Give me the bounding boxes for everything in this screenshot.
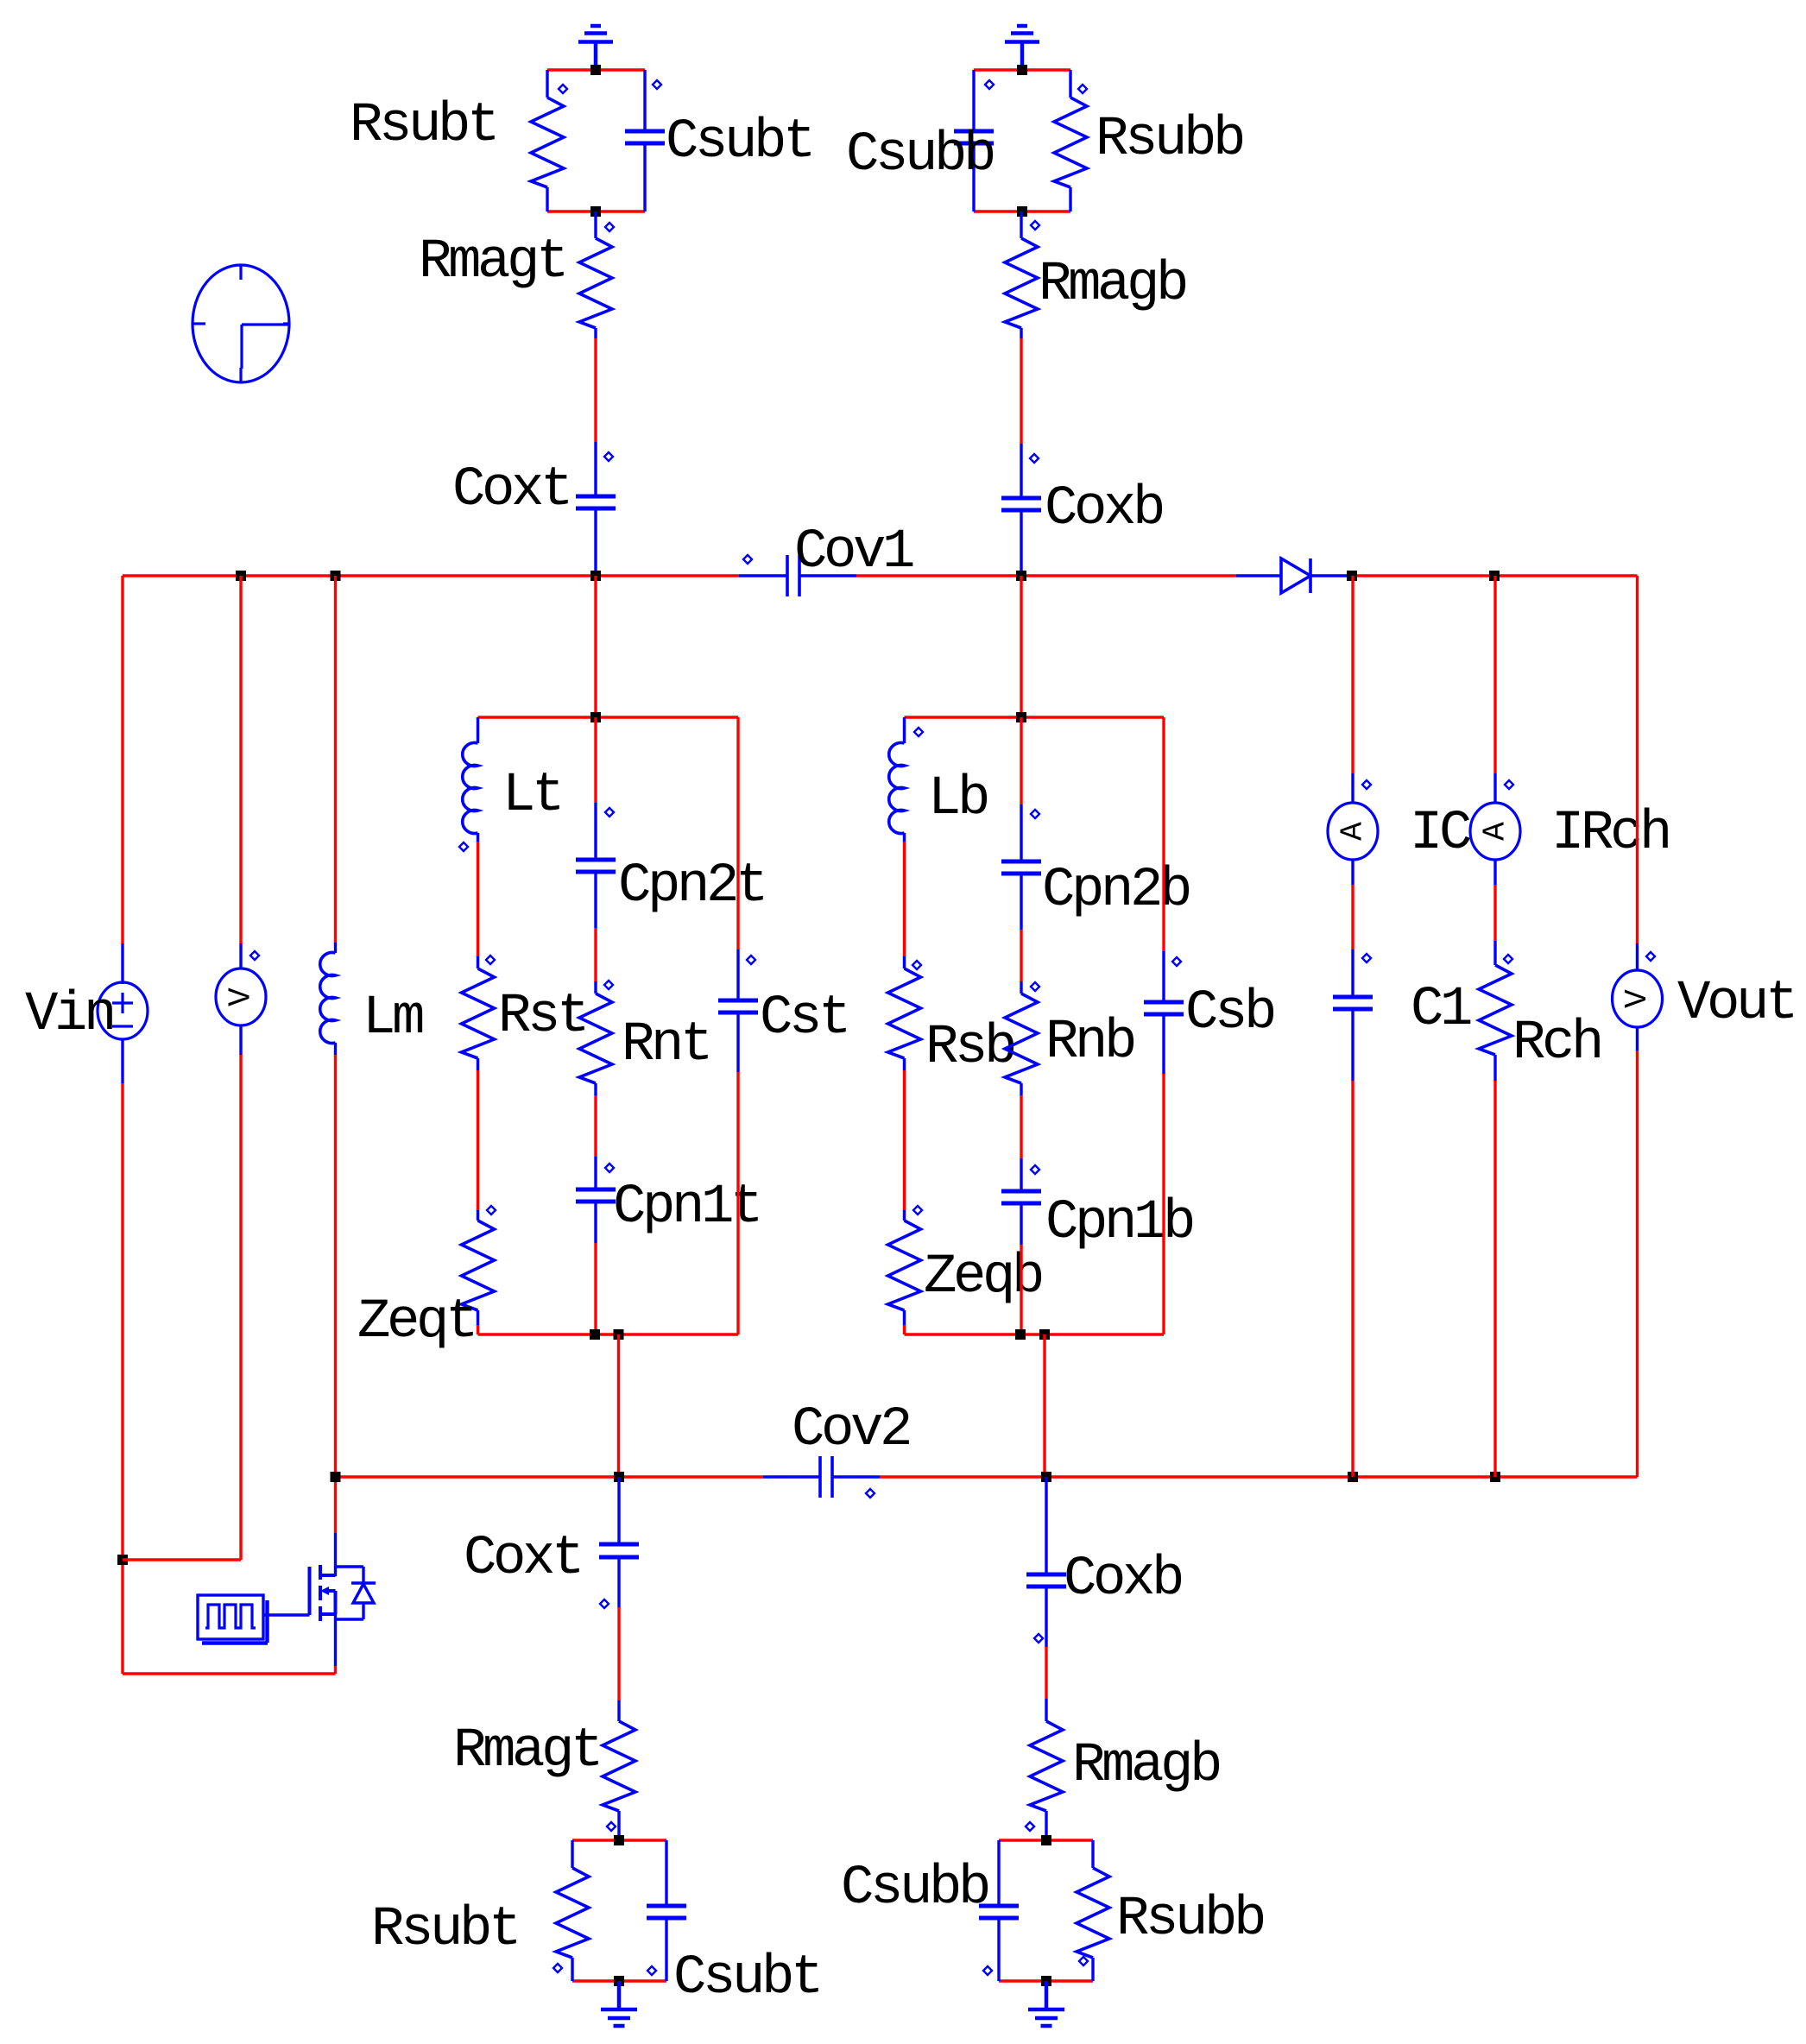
wire: [665, 1840, 667, 1906]
inductor Lt: [463, 742, 478, 833]
svg-text:C1: C1: [1411, 979, 1471, 1041]
svg-text:Rsubt: Rsubt: [350, 95, 496, 157]
wire: [1493, 885, 1496, 941]
wire: [1020, 1245, 1022, 1334]
wire: [1045, 1647, 1047, 1699]
capacitor C1: [1333, 997, 1373, 1009]
pin marker: [1031, 810, 1039, 818]
wire: [1636, 576, 1639, 943]
wire: [1020, 981, 1022, 994]
capacitor Coxt (top): [576, 496, 616, 508]
wire: [121, 943, 123, 984]
node bus-bottom x=1732: [1490, 1472, 1500, 1482]
wire: [1020, 444, 1022, 498]
node box3 bottom center: [1015, 1329, 1026, 1340]
wire diode cathode lead: [1310, 574, 1352, 577]
capacitor Coxb (top): [1001, 498, 1041, 510]
wire: [903, 1325, 906, 1334]
body diode of Q1: [336, 1567, 376, 1619]
pin marker: [1031, 1165, 1039, 1174]
wire: [643, 70, 646, 131]
svg-text:Cpn2b: Cpn2b: [1042, 860, 1190, 922]
wire: [1351, 885, 1354, 949]
pin marker: [250, 951, 259, 960]
wire: [1493, 1081, 1496, 1477]
pin marker: [653, 80, 661, 89]
node box3 bottom drop: [1039, 1329, 1050, 1340]
wire: [477, 1058, 479, 1070]
wire Cov2 left lead: [763, 1475, 820, 1478]
wire box4 top edge: [572, 1839, 666, 1841]
wire: [1020, 1158, 1022, 1191]
wire: [594, 508, 597, 576]
ground bottom-right: [1028, 1981, 1064, 2026]
resistor Rch: [1479, 965, 1512, 1055]
wire: [617, 1811, 620, 1840]
wire: [594, 717, 597, 803]
wire: [903, 1210, 906, 1221]
node bus-top x=388.5: [331, 571, 341, 581]
wire: [571, 1840, 573, 1868]
wire: [617, 1557, 620, 1607]
svg-text:Zeqt: Zeqt: [357, 1291, 475, 1353]
pin marker: [985, 80, 994, 89]
svg-text:Rsubb: Rsubb: [1116, 1889, 1264, 1951]
wire diode anode lead: [1236, 574, 1281, 577]
wire: [736, 949, 739, 1000]
wire: [594, 1095, 597, 1157]
svg-text:Rsubt: Rsubt: [371, 1899, 518, 1961]
wire: [1045, 1477, 1047, 1574]
wire: [571, 1958, 573, 1981]
wire: [1351, 576, 1354, 773]
pin marker: [866, 1489, 875, 1498]
wire lower bus right: [880, 1475, 1638, 1478]
capacitor Csubb (top): [954, 131, 994, 143]
svg-text:Rmagt: Rmagt: [453, 1720, 600, 1782]
svg-text:Coxb: Coxb: [1064, 1549, 1182, 1611]
wire: [477, 717, 479, 743]
inductor Lm: [320, 953, 336, 1044]
svg-text:Zeqb: Zeqb: [924, 1246, 1042, 1309]
node box5 bottom: [1041, 1976, 1051, 1986]
wire: [121, 1039, 123, 1083]
wire: [1045, 1699, 1047, 1721]
wire: [121, 576, 123, 943]
capacitor Cov2: [820, 1456, 832, 1498]
wire: [1162, 1014, 1165, 1074]
pin marker: [1030, 454, 1039, 463]
wire: [972, 143, 975, 211]
wire box2 drop: [617, 1334, 620, 1477]
wire: [736, 1072, 739, 1334]
wire: [334, 576, 337, 943]
wire: [1162, 717, 1165, 951]
wire: [1636, 1050, 1639, 1477]
resistor Rsubt (top): [531, 98, 564, 187]
wire: [1069, 187, 1071, 211]
wire: [997, 1840, 1000, 1906]
wire Cov1 left lead: [739, 574, 787, 577]
capacitor Cpn2t: [576, 860, 616, 872]
wire: [903, 956, 906, 968]
wire: [1091, 1840, 1094, 1868]
wire: [974, 210, 1070, 212]
ground top-right: [1005, 26, 1039, 70]
svg-text:Cpn1b: Cpn1b: [1045, 1192, 1193, 1254]
svg-text:IRch: IRch: [1551, 803, 1669, 865]
wire: [903, 1070, 906, 1210]
svg-text:A: A: [1478, 822, 1513, 841]
resistor Zeqt: [462, 1221, 495, 1310]
pin marker: [1026, 1822, 1034, 1831]
wire: [594, 1083, 597, 1095]
wire: [903, 833, 906, 842]
pin marker: [486, 956, 495, 964]
wire: [594, 1243, 597, 1334]
node ground-Rsubt/Csubt top: [590, 65, 601, 75]
svg-text:Rmagb: Rmagb: [1072, 1735, 1220, 1797]
capacitor Coxt (bottom): [599, 1544, 639, 1557]
wire: [1493, 941, 1496, 965]
capacitor Csb: [1144, 1002, 1184, 1014]
node bus-bottom x=717: [614, 1472, 624, 1482]
wire box4 bottom edge: [572, 1979, 666, 1982]
wire MOSFET source lead: [334, 1614, 337, 1666]
svg-text:Rsubb: Rsubb: [1096, 109, 1243, 171]
wire: [903, 1058, 906, 1070]
wire: [1020, 1095, 1022, 1158]
wire: [903, 1310, 906, 1325]
pin marker: [604, 452, 613, 461]
wire bus to box3: [1020, 576, 1022, 717]
node Csubb/Rsubb bottom: [1017, 206, 1027, 217]
capacitor Csubb (bottom): [979, 1906, 1019, 1918]
svg-text:Cst: Cst: [760, 987, 848, 1050]
probe dial symbol: [193, 265, 289, 382]
wire: [617, 1700, 620, 1721]
pin marker: [912, 961, 921, 969]
wire: [239, 576, 242, 943]
wire: [1351, 1009, 1354, 1081]
wire: [594, 1157, 597, 1189]
capacitor Cpn2b: [1001, 861, 1041, 874]
wire: [1351, 949, 1354, 997]
wire: [903, 842, 906, 956]
svg-text:Rst: Rst: [498, 986, 586, 1048]
resistor Rmagt (top): [579, 238, 612, 328]
wire: [477, 1210, 479, 1221]
pin marker: [1078, 85, 1087, 93]
svg-text:Cov1: Cov1: [794, 521, 913, 584]
wire voltmeter return: [123, 1558, 241, 1561]
wire: [1351, 860, 1354, 885]
node box2 bottom drop: [614, 1329, 624, 1340]
node box4 top: [614, 1835, 624, 1845]
wire MOSFET drain lead: [334, 1533, 337, 1576]
node bus-bottom x=1567: [1348, 1472, 1358, 1482]
wire: [665, 1918, 667, 1981]
pulse source V2: [198, 1595, 268, 1643]
node box2 bottom center: [590, 1329, 600, 1340]
resistor Zeqb: [888, 1221, 921, 1310]
svg-text:Lt: Lt: [502, 765, 561, 827]
pin marker: [604, 981, 613, 989]
wire: [1351, 773, 1354, 804]
ground top-left: [578, 26, 613, 70]
svg-text:Lm: Lm: [363, 987, 423, 1050]
wire: [1636, 943, 1639, 971]
pin marker: [1505, 780, 1513, 789]
node box5 top: [1041, 1835, 1051, 1845]
pin marker: [983, 1966, 992, 1975]
svg-text:Csb: Csb: [1185, 982, 1274, 1044]
wire: [1493, 773, 1496, 804]
svg-text:Coxb: Coxb: [1045, 478, 1163, 540]
wire: [239, 1025, 242, 1055]
wire: [1020, 930, 1022, 981]
wire: [594, 928, 597, 981]
pin marker: [1031, 221, 1039, 230]
capacitor Cpn1t: [576, 1189, 616, 1202]
wire: [477, 833, 479, 842]
wire: [546, 70, 548, 98]
wire: [617, 1607, 620, 1700]
capacitor Csubt (bottom): [647, 1906, 686, 1918]
node bus-top x=1183: [1016, 571, 1026, 581]
wire box3 drop: [1043, 1334, 1045, 1477]
svg-text:V: V: [224, 987, 259, 1006]
node bus-top x=690: [590, 571, 601, 581]
wire: [1069, 70, 1071, 98]
resistor Rmagb (top): [1005, 238, 1038, 328]
wire: [974, 68, 1070, 71]
svg-text:Csubb: Csubb: [841, 1858, 988, 1920]
resistor Rnb: [1005, 994, 1038, 1083]
wire: [903, 717, 906, 743]
wire: [547, 210, 645, 212]
wire: [1493, 1055, 1496, 1081]
capacitor Coxb (bottom): [1026, 1574, 1066, 1587]
wire: [1020, 874, 1022, 930]
svg-text:Rmagb: Rmagb: [1039, 254, 1186, 316]
svg-text:Rmagt: Rmagt: [419, 231, 565, 293]
wire: [477, 842, 479, 956]
svg-text:A: A: [1336, 822, 1371, 841]
wire box5 bottom edge: [999, 1979, 1093, 1982]
wire: [594, 981, 597, 994]
node ground-Csubb/Rsubb top: [1017, 65, 1027, 75]
pin marker: [605, 1164, 614, 1172]
svg-text:Csubb: Csubb: [846, 124, 994, 186]
voltage source Vin: [98, 982, 148, 1039]
node bus-top x=1566: [1347, 571, 1357, 581]
pin marker: [1646, 952, 1655, 961]
resistor Rsubb (top): [1054, 98, 1087, 187]
resistor Rsubb (bottom): [1077, 1868, 1109, 1958]
wire: [121, 1083, 123, 1674]
svg-text:V: V: [1620, 989, 1655, 1008]
wire: [1020, 510, 1022, 576]
wire: [334, 1477, 337, 1533]
wire: [477, 956, 479, 968]
wire box5 top edge: [999, 1839, 1093, 1841]
wire bus to box2: [594, 576, 597, 717]
wire: [643, 143, 646, 211]
wire: [1493, 860, 1496, 885]
wire upper bus left: [123, 574, 739, 577]
pin marker: [1031, 982, 1039, 991]
node box4 bottom: [614, 1976, 624, 1986]
node bus-bottom x=1212: [1041, 1472, 1051, 1482]
ammeter IC: [1328, 803, 1378, 860]
pin marker: [605, 808, 614, 817]
pin marker: [553, 1964, 562, 1972]
svg-text:Cpn2t: Cpn2t: [618, 855, 765, 918]
wire: [334, 1043, 337, 1055]
svg-text:Cov2: Cov2: [792, 1399, 909, 1461]
pin marker: [914, 728, 923, 736]
svg-text:Csubt: Csubt: [666, 111, 812, 173]
wire: [1636, 1027, 1639, 1050]
wire box2 bottom edge: [478, 1333, 739, 1335]
pin marker: [1172, 957, 1181, 966]
wire: [546, 187, 548, 211]
pin marker: [459, 842, 468, 851]
svg-text:Rnt: Rnt: [622, 1014, 710, 1076]
diode D1: [1281, 558, 1310, 593]
wire: [239, 1055, 242, 1560]
wire: [547, 68, 645, 71]
pin marker: [1362, 780, 1371, 789]
wire: [1020, 1203, 1022, 1245]
svg-text:Csubt: Csubt: [673, 1947, 820, 2009]
svg-text:Coxt: Coxt: [464, 1528, 581, 1590]
resistor Rsubt (bottom): [556, 1868, 589, 1958]
capacitor Cov1: [787, 555, 799, 596]
resistor Rnt: [579, 994, 612, 1083]
wire: [1045, 1811, 1047, 1840]
resistor Rmagb (bottom): [1030, 1721, 1063, 1811]
wire: [1162, 1074, 1165, 1334]
pin marker: [743, 555, 752, 564]
wire: [1020, 211, 1022, 238]
wire: [334, 943, 337, 953]
wire: [594, 211, 597, 238]
pin marker: [1034, 1634, 1043, 1643]
pin marker: [605, 223, 614, 231]
wire: [972, 70, 975, 131]
wire: [594, 338, 597, 442]
wire: [1020, 338, 1022, 444]
node bus-top x=279: [236, 571, 246, 581]
wire upper bus right: [1352, 574, 1638, 577]
pin marker: [487, 1206, 496, 1214]
pin marker: [1079, 1957, 1088, 1965]
wire: [1020, 717, 1022, 804]
svg-text:Coxt: Coxt: [452, 459, 570, 521]
wire: [736, 1013, 739, 1072]
wire: [736, 717, 739, 949]
pin marker: [607, 1822, 616, 1831]
svg-text:IC: IC: [1410, 803, 1470, 865]
wire: [594, 328, 597, 338]
wire: [1045, 1587, 1047, 1647]
svg-text:Vout: Vout: [1677, 973, 1795, 1035]
svg-text:Lb: Lb: [928, 768, 988, 830]
wire: [239, 943, 242, 969]
wire: [334, 1055, 337, 1477]
node bus-top x=1731: [1489, 571, 1500, 581]
wire: [1493, 576, 1496, 773]
wire: [594, 1202, 597, 1243]
svg-text:Rsb: Rsb: [925, 1017, 1014, 1079]
svg-text:Rnb: Rnb: [1045, 1012, 1134, 1074]
pin marker: [600, 1599, 609, 1608]
pin marker: [647, 1966, 656, 1975]
svg-text:Vin: Vin: [25, 984, 113, 1046]
wire: [334, 1666, 337, 1674]
wire: [477, 1310, 479, 1325]
wire box2 top edge: [478, 716, 739, 718]
pin marker: [559, 85, 567, 93]
wire box3 bottom edge: [905, 1333, 1165, 1335]
capacitor Csubt (top): [625, 131, 665, 143]
wire: [477, 1070, 479, 1210]
capacitor Cpn1b: [1001, 1191, 1041, 1203]
pin marker: [747, 956, 755, 964]
wire source return bottom: [123, 1672, 336, 1675]
node Vin/voltmeter join: [117, 1555, 128, 1565]
pin marker: [1504, 955, 1512, 963]
wire: [997, 1918, 1000, 1981]
wire Cov2 right lead: [832, 1475, 880, 1478]
node Rsubt/Csubt bottom: [590, 206, 601, 217]
ammeter IRch: [1470, 803, 1520, 860]
wire: [1091, 1958, 1094, 1981]
wire: [594, 872, 597, 928]
node box3 top: [1016, 712, 1026, 722]
wire: [594, 442, 597, 496]
capacitor Cst: [718, 1000, 758, 1013]
wire: [1020, 804, 1022, 861]
transistor Q1 (NMOS): [310, 1565, 336, 1621]
inductor Lb: [889, 743, 905, 834]
wire: [1020, 328, 1022, 338]
wire box3 top edge: [905, 716, 1165, 718]
wire: [477, 1325, 479, 1334]
svg-text:Rch: Rch: [1512, 1013, 1601, 1075]
wire: [594, 803, 597, 860]
wire: [1351, 1081, 1354, 1477]
wire gate lead: [263, 1613, 310, 1616]
wire Cov1 right lead: [799, 574, 856, 577]
wire lower bus left: [336, 1475, 764, 1478]
wire: [1162, 951, 1165, 1002]
pin marker: [913, 1206, 922, 1214]
ground bottom-left: [601, 1981, 637, 2026]
voltmeter Vout: [1613, 970, 1663, 1027]
wire: [1020, 1083, 1022, 1095]
voltmeter probe V: [216, 968, 266, 1025]
wire upper bus mid: [856, 574, 1236, 577]
resistor Rmagt (bottom): [603, 1721, 635, 1811]
resistor Rsb: [888, 968, 921, 1058]
wire: [617, 1477, 620, 1544]
node bus-bottom x=388.5: [331, 1472, 341, 1482]
node box2 top: [590, 712, 601, 722]
pin marker: [1362, 954, 1371, 962]
